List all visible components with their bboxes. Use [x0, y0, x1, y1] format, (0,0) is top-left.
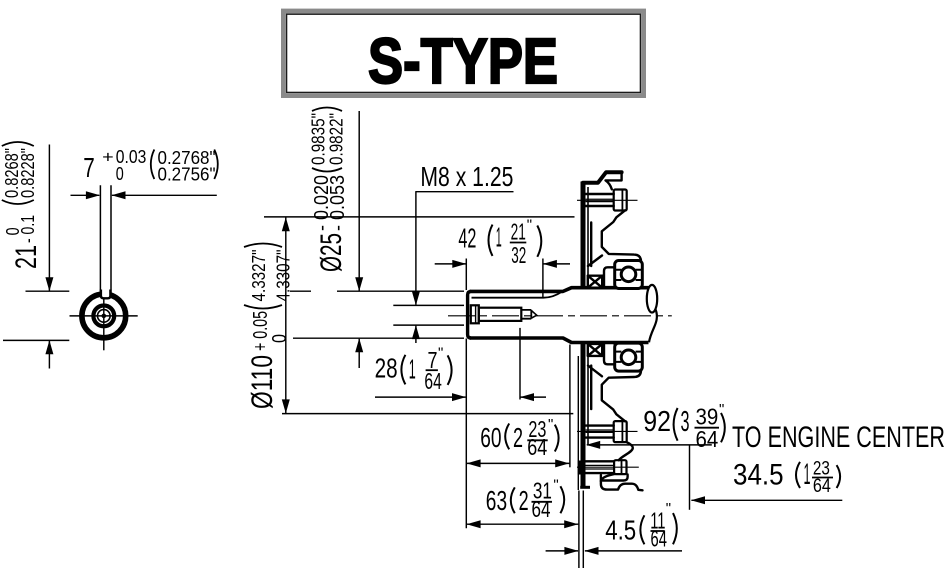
lower bolt head inner line	[621, 421, 623, 442]
dia25 dimension line	[358, 111, 360, 368]
M8 hole extension lines	[393, 305, 464, 325]
bottom foot outline	[601, 475, 643, 490]
crankshaft break S-curve	[649, 310, 657, 343]
crankshaft break ellipse	[647, 285, 657, 313]
svg-text:28: 28	[375, 352, 398, 383]
dim text 42	[458, 217, 541, 269]
rotated dim text dia110	[244, 244, 293, 410]
dim 60 line	[466, 462, 569, 464]
svg-text:1: 1	[496, 221, 502, 252]
second bolt thread lines	[584, 465, 614, 469]
upper bolt head inner line	[621, 190, 623, 211]
dim 34.5 arrow	[691, 496, 705, 504]
svg-text:4.5: 4.5	[605, 514, 636, 545]
upper bolt shank	[586, 194, 614, 206]
svg-text:Ø25: Ø25	[315, 233, 348, 272]
upper bearing block	[615, 261, 643, 289]
svg-text:0.9822": 0.9822"	[325, 113, 346, 165]
dia110 dimension line	[285, 217, 287, 413]
dimension 21 line	[48, 145, 50, 369]
lower bolt head	[614, 421, 627, 442]
lower bearing race lines	[615, 352, 643, 362]
dim 42 extension lines	[466, 259, 543, 298]
dim 28 extension line	[519, 328, 521, 400]
dim text 7 with tolerances	[83, 147, 218, 184]
inner wall top diagonal	[588, 256, 602, 267]
svg-text:63: 63	[486, 485, 507, 516]
dim 4.5 line	[546, 550, 682, 552]
lower bearing block	[615, 343, 643, 371]
rotated dim text 21 with tolerance	[3, 215, 43, 269]
casting bulge between bolts	[619, 442, 633, 460]
keyway slot white gap	[101, 288, 111, 300]
dimension 21 ticks	[3, 291, 69, 340]
shaft bottom edge	[470, 338, 649, 343]
svg-text:0: 0	[116, 164, 124, 184]
left end view of shaft	[70, 288, 138, 351]
dim 92 leader line	[587, 444, 712, 446]
dim 63 and 4.5 extension lines	[579, 491, 583, 569]
svg-text:60: 60	[480, 422, 501, 453]
main side view	[448, 172, 672, 490]
M8 tapped hole collar	[471, 305, 479, 323]
inner thin ring	[98, 310, 111, 323]
inner wall top	[590, 223, 592, 267]
dim 42 line and arrows	[435, 263, 570, 265]
svg-text:TO ENGINE CENTER: TO ENGINE CENTER	[732, 421, 945, 454]
svg-text:64: 64	[651, 526, 668, 552]
inner face line top	[587, 187, 589, 276]
horizontal centerline	[70, 315, 138, 317]
shaft top edge	[470, 288, 649, 292]
svg-text:32: 32	[511, 242, 526, 268]
casting top profile	[606, 172, 622, 189]
dimension 21 arrows	[45, 277, 53, 354]
svg-text:21: 21	[10, 245, 43, 269]
dia25 extension lines	[290, 291, 464, 338]
dia25 arrows	[355, 277, 363, 352]
rotated dim text dia25	[308, 108, 349, 273]
svg-text:": "	[548, 416, 553, 433]
dia110 extension lines	[264, 217, 575, 414]
rotated dim text 0.8268	[1, 142, 38, 204]
svg-text:34.5: 34.5	[733, 459, 784, 492]
svg-text:+ 0.05: + 0.05	[250, 311, 272, 351]
svg-text:": "	[666, 500, 671, 517]
svg-text:64: 64	[813, 475, 831, 497]
dimension 7 arrows	[86, 191, 126, 199]
dia110 arrows	[282, 217, 290, 413]
lower oil seal box	[588, 344, 602, 356]
upper bolt thread lines	[586, 199, 614, 201]
upper bearing ball	[621, 267, 636, 282]
shaft outer ring	[82, 294, 126, 338]
second bolt shank	[584, 461, 614, 473]
svg-text:Ø110: Ø110	[246, 355, 279, 409]
M8 thread body	[479, 308, 522, 321]
upper oil seal box	[588, 276, 602, 288]
casting top profile right	[602, 210, 641, 261]
svg-text:7: 7	[83, 152, 95, 183]
dim 4.5 arrows	[564, 547, 598, 555]
dim text 4.5	[605, 500, 677, 552]
face bar jog at lower bolt	[578, 461, 583, 475]
svg-text:42: 42	[458, 222, 476, 253]
svg-text:0: 0	[269, 334, 291, 343]
title box S-TYPE	[283, 11, 643, 97]
dimension 7 line	[71, 194, 217, 196]
lower spacer block	[604, 343, 615, 364]
inner wall bottom diagonal	[588, 366, 602, 377]
svg-text:0.2756": 0.2756"	[158, 163, 216, 184]
mounting face bar lower	[581, 343, 586, 488]
dim text 60	[480, 416, 558, 460]
second bolt head inner line	[621, 460, 623, 474]
upper bearing race lines	[615, 270, 643, 280]
shaft end face	[468, 291, 471, 338]
dim 28 arrows	[452, 393, 534, 401]
svg-text:64: 64	[424, 368, 442, 394]
svg-text:64: 64	[527, 434, 547, 460]
second bolt centerline	[577, 466, 639, 468]
bearing middle ring	[93, 306, 114, 327]
inner face line bottom	[587, 356, 589, 445]
second bolt head	[614, 460, 626, 474]
svg-text:1: 1	[804, 458, 811, 491]
svg-text:S-TYPE: S-TYPE	[368, 25, 558, 97]
svg-text:": "	[527, 217, 532, 234]
keyway slot walls	[101, 290, 111, 299]
keyway floor line	[472, 292, 563, 298]
dim 63 arrows	[467, 520, 579, 528]
dim 28 line	[375, 396, 546, 398]
svg-text:2: 2	[519, 485, 529, 516]
upper bolt centerline	[577, 199, 638, 201]
svg-text:": "	[438, 345, 443, 362]
svg-text:0: 0	[3, 227, 23, 235]
center dot	[102, 314, 107, 319]
svg-text:21: 21	[511, 219, 526, 245]
vertical centerline	[103, 298, 105, 350]
lower bearing ball	[621, 350, 636, 365]
svg-text:92: 92	[643, 406, 671, 438]
lower bolt thread lines	[586, 430, 614, 432]
second bolt connector	[601, 474, 614, 481]
dim text 28	[375, 345, 452, 394]
dim 63 line	[466, 523, 578, 525]
drill point chevron	[531, 311, 536, 319]
shaft end extension line	[465, 339, 467, 529]
svg-text:M8 x 1.25: M8 x 1.25	[420, 161, 513, 192]
engine center extension line	[689, 445, 691, 510]
thread tip lines	[521, 310, 531, 319]
svg-text:3: 3	[681, 406, 690, 438]
flange top step thick	[583, 172, 622, 182]
dim 34.5 line	[691, 499, 842, 501]
lower bolt shank	[586, 426, 614, 438]
bottom foot shelf	[603, 475, 628, 481]
dim text 34.5	[733, 458, 840, 498]
collar inner line	[475, 305, 477, 323]
dim 60 extension line	[569, 345, 571, 468]
dimension 7 keyway extension lines	[100, 185, 111, 293]
thin plate line left of bar	[577, 356, 579, 490]
svg-text:0.8228": 0.8228"	[17, 148, 38, 198]
face bar foot	[580, 486, 590, 489]
shaft centerline	[448, 315, 672, 317]
upper bolt head	[614, 190, 627, 211]
upper spacer block	[604, 267, 615, 288]
svg-text:4.3307": 4.3307"	[272, 250, 293, 302]
casting bottom profile right	[602, 370, 641, 421]
inner wall bottom	[590, 366, 592, 410]
svg-text:64: 64	[532, 496, 551, 522]
dim text 92	[643, 401, 725, 452]
M8 label underline and leader	[415, 192, 513, 343]
M8 leader arrows	[412, 291, 420, 339]
svg-text:+: +	[102, 148, 114, 167]
mounting face bar upper	[581, 182, 586, 289]
svg-text:64: 64	[696, 426, 719, 452]
svg-text:- 0.053: - 0.053	[327, 175, 349, 231]
svg-text:1: 1	[409, 354, 416, 385]
svg-text:": "	[553, 477, 558, 494]
dim 60 arrows	[467, 459, 570, 467]
svg-text:4.3327": 4.3327"	[248, 250, 269, 302]
svg-text:2: 2	[513, 422, 523, 453]
dim 92 arrow	[586, 441, 600, 449]
dim text 63	[486, 477, 564, 522]
lower bolt centerline	[577, 430, 638, 432]
